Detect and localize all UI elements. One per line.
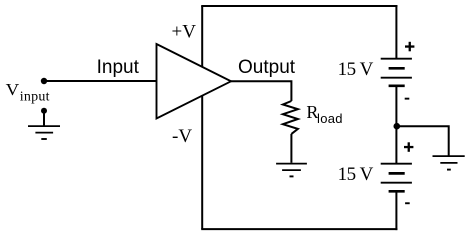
wire output <box>231 81 291 101</box>
wire lower terminal to ground <box>43 111 45 126</box>
svg-text:+V: +V <box>172 21 197 42</box>
node input terminal dot <box>41 78 47 84</box>
svg-text:load: load <box>317 111 343 126</box>
label B1 minus <box>405 98 410 100</box>
battery B1 15V <box>381 59 412 86</box>
wire battery 2 to bottom rail <box>395 191 397 230</box>
wire node to battery 2 <box>395 126 397 164</box>
node lower input terminal dot <box>41 108 47 114</box>
svg-text:Output: Output <box>238 57 296 78</box>
label Rload <box>306 102 342 126</box>
svg-text:input: input <box>20 90 50 105</box>
ground left (input) <box>28 126 60 139</box>
svg-text:V: V <box>6 80 20 99</box>
label Vinput <box>6 80 50 105</box>
ground right (supply) <box>433 156 465 170</box>
wire right drop to battery 1 <box>395 5 397 59</box>
node junction dot <box>394 123 401 130</box>
wire input <box>44 80 157 82</box>
wire top rail <box>201 5 397 7</box>
wire battery 1 to node <box>395 86 397 126</box>
wire -V supply <box>201 94 203 229</box>
wire resistor to ground <box>290 134 292 163</box>
resistor Rload <box>283 101 298 134</box>
battery B2 15V <box>381 164 412 192</box>
svg-text:-V: -V <box>172 126 192 147</box>
wire +V supply <box>201 6 203 67</box>
op-amp U1 <box>157 44 232 119</box>
label B1 plus <box>405 42 414 52</box>
svg-text:15 V: 15 V <box>338 164 374 185</box>
label B2 minus <box>405 202 410 204</box>
ground load <box>276 164 307 177</box>
wire node to right ground <box>397 126 449 156</box>
wire bottom rail <box>201 228 397 230</box>
label B2 plus <box>404 142 413 152</box>
svg-text:Input: Input <box>97 57 140 78</box>
svg-text:15 V: 15 V <box>338 59 374 80</box>
